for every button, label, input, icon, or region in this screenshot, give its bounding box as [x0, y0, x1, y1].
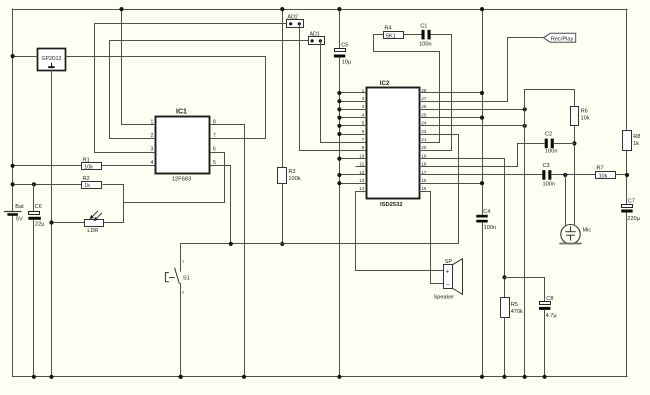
svg-text:C3: C3 — [543, 163, 550, 169]
capacitor C8 plates — [540, 302, 551, 305]
svg-text:Speaker: Speaker — [434, 295, 455, 301]
svg-text:Rec/Play: Rec/Play — [551, 36, 574, 42]
wire Rec/Play to IC2 pin27 — [419, 38, 544, 102]
wire C6 bottom to ground — [33, 220, 35, 377]
wire AO2 pin2 to IC2 pin9 — [300, 24, 367, 151]
svg-text:R6: R6 — [581, 109, 588, 115]
svg-text:21: 21 — [421, 137, 426, 142]
wire VCC rail to R1 — [13, 165, 82, 167]
svg-text:IC1: IC1 — [176, 109, 187, 116]
svg-text:1k: 1k — [633, 141, 639, 147]
wire C5 top to VCC rail — [339, 9, 341, 49]
svg-text:−: − — [446, 282, 450, 288]
svg-text:25: 25 — [421, 112, 426, 117]
svg-text:3: 3 — [151, 147, 154, 153]
svg-text:R2: R2 — [83, 176, 90, 182]
wire mic left lead — [565, 175, 567, 226]
wire pin26-24 vertical to ground — [524, 90, 526, 377]
node IC1 pin8 ground junction — [242, 375, 246, 379]
resistor R4 box — [384, 32, 404, 39]
svg-text:5K1: 5K1 — [386, 33, 396, 39]
node R5-C8 junction — [502, 275, 506, 279]
wire IC2 pin11 stub NC — [356, 166, 366, 168]
switch S1 lower wire to ground — [180, 284, 182, 377]
wire IC2 pin12 stub — [339, 174, 366, 176]
wire C3 right to R7 — [551, 174, 595, 176]
wire IC2 pin17 to C3 — [419, 174, 542, 176]
svg-text:C5: C5 — [341, 42, 348, 48]
svg-text:R7: R7 — [596, 165, 603, 171]
svg-text:4.7µ: 4.7µ — [546, 313, 558, 319]
speaker SP driver box — [444, 265, 453, 289]
svg-text:6: 6 — [213, 147, 216, 153]
svg-text:R8: R8 — [633, 134, 640, 140]
svg-text:220µ: 220µ — [627, 216, 640, 222]
svg-text:10k: 10k — [84, 164, 93, 170]
node C6-R2 junction — [32, 182, 36, 186]
wire IC1 pin1 riser to VCC rail — [122, 10, 156, 125]
resistor R5 box — [501, 298, 510, 318]
wire R5 bottom to ground — [504, 318, 506, 377]
svg-text:10k: 10k — [599, 174, 608, 180]
node IC2 address bus junctions pins 1-6 — [337, 91, 341, 95]
node R1-rail junction — [11, 164, 15, 168]
wire top link to R6 — [525, 90, 575, 107]
wire IC1 pin6 to LDR-R2 node — [124, 153, 225, 203]
svg-text:14: 14 — [359, 186, 364, 191]
node pin24 junction — [523, 124, 527, 128]
node VCC-rail junction — [480, 7, 484, 11]
svg-text:470k: 470k — [511, 309, 523, 315]
node R7-rail junction — [625, 173, 629, 177]
wire R7 right to rail — [616, 174, 628, 176]
svg-text:R1: R1 — [83, 157, 90, 163]
wire C4 bottom to ground — [482, 223, 484, 377]
microphone Mic base line — [560, 243, 581, 245]
resistor R7 box — [596, 172, 616, 179]
wire right rail lower (C7 to ground) — [626, 213, 628, 377]
resistor R6 box — [571, 107, 579, 126]
photoresistor LDR arrows — [90, 211, 102, 221]
switch S1 blade — [175, 268, 180, 283]
wire R3 top to VCC rail — [282, 9, 284, 168]
wire top VCC rail — [13, 9, 627, 11]
resistor R2 box — [82, 182, 102, 189]
wire right rail upper (to R8) — [626, 9, 628, 130]
node R3 switch-line junction — [280, 242, 284, 246]
svg-text:11: 11 — [360, 162, 365, 167]
battery Bat 5V plates — [5, 211, 21, 213]
wire right rail mid (R8 to C7) — [626, 150, 628, 205]
wire C2 right to R6 bottom — [554, 143, 575, 145]
wire IC1 pin5 to switch line — [211, 166, 231, 244]
svg-text:10: 10 — [359, 153, 364, 158]
wire AD1 pin2 to IC2 pin7 — [321, 41, 367, 143]
node IC1 pin1 VCC junction — [119, 7, 123, 11]
node pin26 junction — [523, 107, 527, 111]
svg-text:SP: SP — [445, 259, 453, 265]
node C5 VCC junction — [337, 7, 341, 11]
switch S1 actuator bracket — [165, 273, 169, 282]
wire R4 left to IC2 pin21 — [374, 35, 440, 143]
capacitor C7 plates — [622, 205, 633, 208]
wire IC2 pin13 stub — [339, 183, 366, 185]
node IC2 pin10 junction — [337, 157, 341, 161]
svg-text:100k: 100k — [288, 176, 300, 182]
wire IC2 pin15 to speaker minus — [419, 192, 444, 284]
connector AD1 box — [309, 37, 325, 45]
node LDR-GP2D12 junction — [49, 220, 53, 224]
svg-text:100n: 100n — [543, 181, 555, 187]
node R2-rail junction — [11, 182, 15, 186]
svg-text:16: 16 — [421, 178, 426, 183]
svg-text:19: 19 — [421, 153, 426, 158]
wire IC2 pin28 stub — [419, 92, 482, 94]
node ground junctions bottom rail — [32, 375, 36, 379]
wire bottom ground rail — [13, 376, 627, 378]
microphone Mic circle — [561, 225, 580, 244]
svg-text:1k: 1k — [84, 183, 90, 189]
wire GP2D12 output to IC1 pin7 loop — [66, 57, 266, 139]
svg-text:LDR: LDR — [87, 228, 98, 234]
svg-text:R4: R4 — [384, 25, 391, 31]
flag Rec/Play — [544, 33, 576, 42]
sensor GP2D12 ground glyph — [51, 63, 53, 66]
connector AD1 pins — [311, 39, 314, 42]
svg-text:IC2: IC2 — [380, 80, 390, 87]
resistor R1 box — [82, 163, 102, 170]
svg-text:C1: C1 — [420, 24, 427, 30]
wire IC2 pin24 stub — [419, 125, 525, 127]
svg-text:+: + — [446, 269, 450, 275]
wire C6 top — [33, 184, 35, 211]
svg-text:26: 26 — [421, 104, 426, 109]
wire IC2 pin10 stub — [339, 158, 366, 160]
microphone Mic inner electret symbol — [565, 226, 576, 240]
svg-text:100n: 100n — [545, 148, 557, 154]
wire R4 to C1 — [404, 34, 422, 36]
svg-text:24: 24 — [421, 121, 426, 126]
op-amp IC1 PIC12F683 box — [156, 117, 210, 174]
svg-text:C8: C8 — [546, 296, 553, 302]
wire GP2D12 bottom to ground — [51, 70, 53, 377]
svg-text:18: 18 — [421, 162, 426, 167]
wire IC1 pin3 to AO2 — [95, 24, 287, 153]
svg-text:R3: R3 — [288, 169, 295, 175]
svg-text:Bat: Bat — [15, 204, 24, 210]
wire C8 branch — [505, 278, 545, 302]
capacitor C2 plates — [545, 139, 548, 149]
wire C1 right to IC2 pin20 — [419, 35, 452, 151]
node GP2D12-rail junction — [11, 54, 15, 58]
wire VCC rail to R2 — [13, 184, 82, 186]
node IC2 pin12 junction — [337, 173, 341, 177]
wire LDR left — [52, 222, 85, 224]
wire IC2 pin26 stub — [419, 109, 525, 111]
wire VCC drop to C4 — [482, 9, 484, 215]
wire switch line S1 to IC2 pin23 — [181, 135, 459, 244]
node mic-left junction — [563, 173, 567, 177]
wire left battery rail (lower) — [12, 215, 14, 377]
photoresistor LDR box — [85, 220, 104, 227]
svg-text:C7: C7 — [628, 199, 635, 205]
resistor R8 box — [623, 131, 632, 151]
wire IC2 pin25 stub — [419, 117, 482, 119]
svg-text:AO2: AO2 — [287, 15, 298, 21]
node pin28 VCC junction — [480, 91, 484, 95]
node pin16 VCC junction — [480, 181, 484, 185]
sensor GP2D12 box — [38, 49, 66, 71]
resistor R3 box — [278, 168, 287, 184]
switch S1 actuator link — [170, 277, 175, 279]
svg-text:10µ: 10µ — [342, 59, 352, 65]
speaker cone — [453, 259, 463, 295]
capacitor C6 plates — [29, 212, 40, 215]
svg-text:27: 27 — [421, 96, 426, 101]
svg-text:12F683: 12F683 — [172, 176, 192, 182]
svg-text:S1: S1 — [183, 276, 190, 282]
wire C2 left to IC2 pin18 — [419, 144, 545, 167]
wire R6 bottom to mic right lead — [574, 125, 576, 225]
svg-text:1: 1 — [182, 259, 184, 263]
svg-text:AD1: AD1 — [310, 32, 320, 38]
svg-text:7: 7 — [213, 133, 216, 139]
svg-text:100n: 100n — [419, 42, 431, 48]
capacitor C1 plates — [422, 30, 425, 40]
wire IC2 pin16 stub — [419, 183, 482, 185]
svg-text:100n: 100n — [484, 225, 496, 231]
node R6-C2 junction — [572, 141, 576, 145]
node pin25 VCC junction — [480, 116, 484, 120]
connector AO2 pins — [289, 22, 292, 25]
wire GP2D12 left to rail — [13, 56, 38, 58]
wire IC1 pin2 to AD1 — [110, 41, 309, 139]
svg-text:15: 15 — [421, 186, 426, 191]
wire IC2 pins 1-6 stubs to address bus — [339, 92, 366, 94]
svg-text:Mic: Mic — [583, 228, 592, 234]
op-amp IC2 ISD2532 box — [367, 88, 420, 199]
svg-text:ISD2532: ISD2532 — [380, 202, 403, 208]
node R3 VCC junction — [280, 7, 284, 11]
node IC2 pin13 junction — [337, 181, 341, 185]
svg-text:22µ: 22µ — [35, 221, 45, 227]
connector AO2 box — [287, 20, 304, 28]
svg-text:13: 13 — [359, 178, 364, 183]
svg-text:4: 4 — [151, 160, 154, 166]
wire R2 right to LDR right — [103, 185, 124, 223]
node S1 ground junction — [179, 375, 183, 379]
wire R1 to IC1 pin4 — [102, 165, 156, 167]
switch S1 upper wire — [180, 244, 182, 271]
svg-text:C2: C2 — [545, 131, 552, 137]
svg-text:10k: 10k — [581, 116, 590, 122]
svg-text:2: 2 — [182, 290, 184, 294]
node pin5 junction on switch line — [229, 242, 233, 246]
svg-text:C6: C6 — [35, 204, 42, 210]
svg-text:C4: C4 — [483, 209, 490, 215]
wire IC2 address bus down to ground — [339, 58, 341, 377]
capacitor C5 plates — [335, 49, 346, 52]
svg-text:20: 20 — [421, 145, 426, 150]
capacitor C3 plates — [542, 170, 545, 180]
wire left battery rail (upper) — [12, 9, 14, 212]
svg-text:5V: 5V — [16, 217, 23, 223]
capacitor C4 plates — [476, 215, 487, 218]
wire IC2 pin14 to speaker plus — [356, 192, 444, 271]
wire IC1 pin8 to ground — [211, 125, 245, 377]
wire R3 bottom to switch line — [282, 184, 284, 244]
svg-text:23: 23 — [421, 129, 426, 134]
svg-text:R5: R5 — [511, 302, 518, 308]
wire C8 bottom to ground — [544, 310, 546, 377]
wire IC2 pin19 to R5 — [419, 159, 505, 298]
svg-text:GP2D12: GP2D12 — [42, 56, 62, 62]
